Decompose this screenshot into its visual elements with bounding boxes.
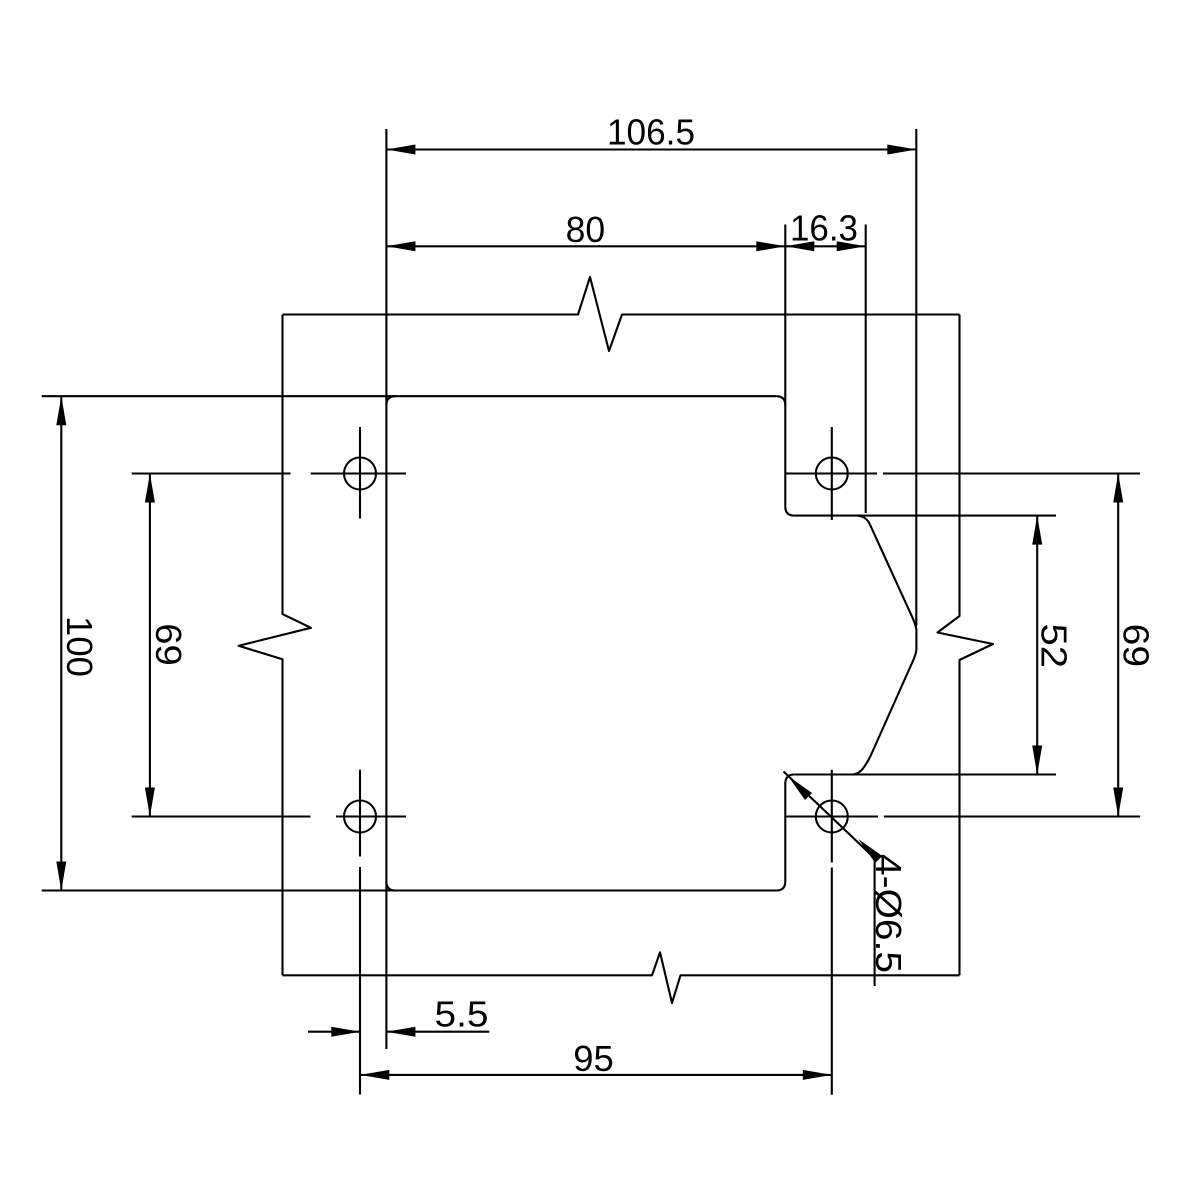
centerline horizontal hole top-left / 69-dim top extension <box>132 472 406 474</box>
arrowhead 80 right <box>756 241 785 251</box>
arrowhead 52 bottom <box>1032 746 1042 775</box>
cutout corner arc bottom-left <box>386 882 395 891</box>
arrowhead 69 right top <box>1113 474 1123 503</box>
arrowhead 100 top <box>56 396 66 425</box>
cutout top edge / 100-dim top extension y=396.2 <box>42 395 777 397</box>
plate outline right edge with break <box>938 315 994 976</box>
centerline horizontal hole bottom-left / 69-dim bottom extension <box>132 815 406 817</box>
dimension line 95 <box>360 1074 832 1076</box>
arrowhead 16.3 left <box>785 241 814 251</box>
svg-text:5.5: 5.5 <box>435 994 489 1035</box>
cutout V-notch between tabs <box>853 516 916 775</box>
arrowhead 69 left bottom <box>145 788 155 817</box>
cutout bottom edge / 100-dim bottom extension y=890.5 <box>42 889 777 891</box>
dimension line 80 and 16.3 <box>386 245 865 247</box>
arrowhead 106.5 right <box>887 145 916 155</box>
centerline vertical hole top-right <box>831 427 833 520</box>
leader line 4-Ø6.5 <box>784 772 875 987</box>
arrowhead 69 right bottom <box>1113 788 1123 817</box>
plate outline bottom edge with break <box>283 952 960 1003</box>
arrowhead leader at hole <box>858 839 882 863</box>
hole top-left Ø6.5 <box>344 458 376 490</box>
dimension line 106.5 <box>386 148 916 150</box>
arrowhead 100 bottom <box>56 862 66 891</box>
centerline vertical hole top-left <box>359 427 361 519</box>
arrowhead 52 top <box>1032 516 1042 545</box>
arrowhead 69 left top <box>145 474 155 503</box>
centerline vertical hole bottom-left / 95-dim left extension <box>359 770 361 1095</box>
dimension line 100 <box>60 396 62 890</box>
arrowhead 16.3 right <box>837 241 866 251</box>
svg-text:52: 52 <box>1034 624 1075 669</box>
16.3-dim right extension x=865.7 <box>865 225 867 514</box>
centerline vertical hole bottom-right / 95-dim right extension <box>831 770 833 1095</box>
plate outline left edge with break <box>239 315 311 976</box>
svg-text:106.5: 106.5 <box>607 111 695 152</box>
cutout corner arc step top tab <box>785 507 794 516</box>
hole top-right Ø6.5 <box>816 458 848 490</box>
dimension line 5.5 with outside tails <box>308 1031 489 1033</box>
arrowhead 5.5 left outside <box>331 1027 360 1037</box>
hole bottom-right Ø6.5 <box>816 801 848 833</box>
arrowhead 106.5 left <box>386 145 415 155</box>
arrowhead 5.5 right outside <box>386 1027 415 1037</box>
106.5-dim right extension x=916.3 <box>915 129 917 626</box>
arrowhead leader at tab corner <box>788 776 812 800</box>
hole bottom-left Ø6.5 <box>344 801 376 833</box>
plate outline top edge with break <box>283 277 960 351</box>
svg-text:16.3: 16.3 <box>790 208 858 249</box>
svg-text:69: 69 <box>1116 624 1157 668</box>
dimension line 69 left <box>149 474 151 817</box>
arrowhead 95 right <box>803 1070 832 1080</box>
dimension line 69 right <box>1117 474 1119 817</box>
cutout right lower edge x=785.3 <box>784 784 786 882</box>
svg-text:80: 80 <box>566 209 606 250</box>
svg-text:69: 69 <box>148 623 189 666</box>
centerline horizontal hole top-right / right 69-dim top extension <box>786 472 1140 474</box>
cutout corner arc top-right <box>776 396 785 405</box>
cutout corner arc bottom tab upper <box>785 775 794 784</box>
arrowhead 95 left <box>360 1070 389 1080</box>
dimension line 52 <box>1036 516 1038 775</box>
svg-text:95: 95 <box>573 1038 614 1079</box>
step edge top tab / 52-dim top extension y=515.6 <box>794 515 1056 517</box>
svg-text:4-Ø6.5: 4-Ø6.5 <box>868 854 909 973</box>
bottom tab top edge / 52-dim bottom extension y=774.5 <box>794 773 1056 775</box>
cutout right upper edge / 80-dim extension x=785.3 <box>784 225 786 507</box>
centerline horizontal hole bottom-right / right 69-dim bottom extension <box>785 815 1140 817</box>
cutout corner arc top-left <box>386 396 395 405</box>
svg-text:100: 100 <box>59 616 100 677</box>
cutout corner arc bottom tab lower <box>776 882 785 891</box>
cutout left edge / extension line x=386.4 <box>385 129 387 1049</box>
arrowhead 80 left <box>386 241 415 251</box>
